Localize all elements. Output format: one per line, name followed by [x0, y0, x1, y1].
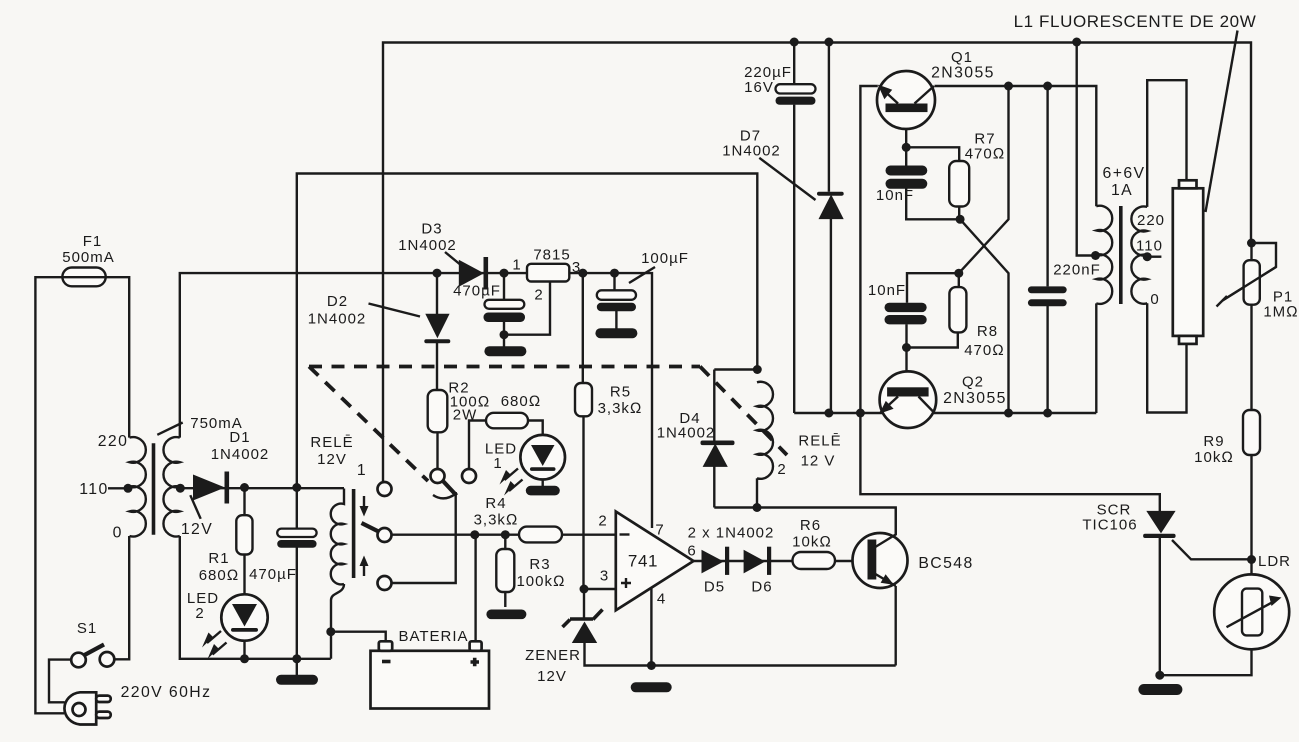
wire: R3 branch to ground: [504, 535, 506, 607]
wire: T2 primary bottom to Q2 collector rail: [1095, 303, 1097, 413]
node relay2 coil top: [753, 365, 762, 374]
svg-text:0: 0: [1150, 291, 1159, 308]
transistor BC548: [853, 508, 974, 589]
svg-text:100µF: 100µF: [641, 250, 689, 267]
wire: R4 output to op-amp pin 2: [562, 534, 616, 536]
relay RELE1 lower fixed contact: [378, 576, 392, 590]
wire: D7 column: [829, 42, 831, 413]
wire: zener to ground line and op-amp pin 4: [585, 585, 896, 666]
wire: T2 secondary 110 tap stub: [1147, 256, 1161, 258]
svg-text:R3: R3: [529, 556, 550, 573]
wire: P1 wiper end tick: [1217, 296, 1228, 307]
wire: Q1 collector line to transformer T2 primary top: [935, 86, 1097, 206]
wire: fuse to T1 primary 220 tap: [106, 277, 130, 437]
node T2 centre tap rail1: [1072, 38, 1081, 47]
svg-text:D3: D3: [421, 221, 442, 238]
wire: SCR cathode to ground node: [1159, 538, 1161, 676]
svg-text:RELĒ: RELĒ: [798, 433, 841, 450]
svg-text:110: 110: [1136, 238, 1163, 255]
svg-text:TIC106: TIC106: [1082, 517, 1137, 534]
wire: R5 column from rail3 to reference node: [582, 273, 585, 589]
resistor R5 3,3k: [575, 383, 642, 417]
label T1 rating 750mA with pointer: [157, 423, 182, 435]
diode D7 1N4002: [722, 128, 843, 220]
ground symbol under SCR: [1138, 684, 1182, 695]
node Q2 base network: [954, 269, 963, 278]
node 220uF top rail: [790, 38, 799, 47]
diode D1 1N4002: [193, 429, 269, 504]
wire: Q1 emitter leg down to Q2 emitter rail: [860, 86, 877, 413]
wire: AC rail3 from T1 secondary top to D3 / 7815 / op-amp pin7 corner: [180, 273, 652, 528]
wire: SCR anode feed line from oscillator rail: [860, 413, 1159, 512]
transformer T1 core: [152, 443, 156, 535]
wire: battery plus lead up to comparator input node: [474, 535, 476, 642]
wire: R9 to LDR: [1250, 455, 1252, 575]
ground symbol under 470uF-2: [484, 346, 526, 356]
svg-text:2W: 2W: [453, 407, 478, 424]
resistor R7 470ohm: [949, 131, 1005, 207]
svg-text:BATERIA: BATERIA: [398, 628, 468, 645]
resistor R9 10k: [1194, 410, 1260, 466]
svg-text:12V: 12V: [317, 451, 347, 468]
wire: SCR gate to divider node: [1172, 540, 1252, 559]
svg-text:4: 4: [657, 591, 666, 608]
wire: 680ohm to LED1: [528, 421, 543, 436]
node R5 top: [578, 269, 587, 278]
svg-text:110: 110: [79, 481, 108, 498]
node battery minus tie: [326, 627, 335, 636]
svg-text:F1: F1: [83, 233, 103, 250]
svg-text:3,3kΩ: 3,3kΩ: [474, 512, 519, 529]
wire: T2 secondary 220 end up and over to lamp top pin: [1147, 80, 1186, 207]
svg-text:470µF: 470µF: [249, 566, 297, 583]
LDR: [1214, 574, 1289, 649]
diode D5: [702, 547, 730, 596]
svg-text:R1: R1: [208, 550, 229, 567]
wire: D4 flyback diode column: [713, 370, 715, 508]
wire: S1 to plug: [49, 660, 71, 703]
diode D4 1N4002: [657, 410, 735, 467]
resistor R8 470ohm: [949, 287, 1004, 359]
wire: contact to 680ohm resistor: [469, 421, 486, 470]
wire: LED1 cathode to ground: [542, 479, 544, 487]
svg-text:220: 220: [1137, 212, 1165, 229]
node R3 top: [501, 530, 510, 539]
node 470uF-1 ground rail: [292, 654, 301, 663]
wire: T1 110 tap stub: [108, 487, 128, 489]
svg-text:1N4002: 1N4002: [398, 237, 457, 254]
wire: T1 secondary bottom to ground rail along bottom: [180, 536, 331, 659]
node T1 110 tap: [124, 484, 133, 493]
diode D2 1N4002: [308, 293, 451, 343]
node SCR gate / divider: [1247, 555, 1256, 564]
svg-text:R6: R6: [800, 517, 821, 534]
node SCR cathode / LDR ground: [1155, 671, 1164, 680]
wire: reference node to op-amp pin 3: [584, 588, 616, 590]
node 470uF-1 top: [292, 483, 301, 492]
svg-text:1: 1: [357, 462, 367, 479]
svg-text:220V 60Hz: 220V 60Hz: [121, 684, 212, 701]
svg-text:R8: R8: [977, 323, 998, 340]
svg-text:6: 6: [687, 543, 696, 560]
op-amp 741: [616, 512, 694, 611]
transformer T2 primary winding: [1096, 206, 1112, 304]
node Q1 collector column top: [1004, 82, 1013, 91]
svg-text:7815: 7815: [533, 247, 570, 264]
svg-text:6+6V: 6+6V: [1103, 165, 1146, 182]
svg-text:D5: D5: [704, 579, 725, 596]
svg-text:16V: 16V: [744, 79, 774, 96]
wire: P1 to R9: [1250, 243, 1252, 410]
node Q1 base / R7: [902, 143, 911, 152]
svg-text:0: 0: [113, 525, 123, 542]
node zener / pin3 reference: [580, 585, 589, 594]
node relay2 coil bottom: [753, 503, 762, 512]
svg-text:D2: D2: [327, 293, 348, 310]
resistor R1 680ohm: [199, 515, 253, 584]
battery: [371, 628, 490, 709]
transformer T1 primary winding: [130, 437, 146, 536]
node 470uF-2 top: [500, 269, 509, 278]
capacitor 470uF-1: [249, 529, 317, 583]
switch S1: [71, 620, 114, 667]
wire: 470uF-1 column and ground stem: [296, 488, 298, 676]
relay RELE2 coil: [757, 382, 842, 479]
wire: relay1 coil bottom lead down to ground rail: [331, 584, 344, 659]
wire: cross-coupling diagonal from Q1 collector column to Q2 base network: [959, 86, 1009, 273]
svg-text:12V: 12V: [181, 521, 213, 538]
svg-text:ZENER: ZENER: [525, 647, 581, 664]
ground symbol under R3: [486, 610, 526, 620]
wire: BC548 emitter down to ground line: [895, 586, 897, 666]
svg-text:2: 2: [534, 287, 543, 304]
potentiometer P1 1M: [1223, 260, 1299, 320]
svg-text:500mA: 500mA: [62, 249, 115, 266]
svg-text:BC548: BC548: [918, 555, 973, 572]
svg-text:Q1: Q1: [951, 49, 973, 66]
wire: Q2 emitter rail across oscillator: [794, 412, 1096, 414]
SCR TIC106: [1082, 502, 1175, 539]
node R4 input / battery plus: [470, 530, 479, 539]
svg-text:R5: R5: [610, 384, 631, 401]
svg-text:1: 1: [493, 455, 502, 472]
fluorescent lamp L1: [1173, 180, 1203, 344]
capacitor 10nF lower: [868, 282, 927, 324]
node LED2 ground rail: [240, 654, 249, 663]
svg-text:10nF: 10nF: [868, 282, 906, 299]
wire: 470uF-2 column: [503, 273, 505, 347]
node T1 12V tap: [176, 484, 185, 493]
svg-text:10nF: 10nF: [876, 187, 914, 204]
resistor R3 100k: [496, 549, 565, 592]
wire: D4 top tie to relay2 coil node: [714, 368, 757, 370]
transformer T2 core: [1119, 206, 1123, 304]
svg-text:10kΩ: 10kΩ: [792, 534, 832, 551]
relay RELE1 second pole fixed contact: [462, 469, 476, 483]
ground symbol below bottom rail: [276, 675, 318, 685]
svg-text:12V: 12V: [537, 668, 567, 685]
regulator 7815: [527, 247, 571, 282]
wire: P1 wiper tie: [1223, 243, 1277, 301]
relay RELE1 second pole pivot contact: [431, 469, 457, 498]
wire: zener top lead: [583, 589, 585, 618]
svg-text:3,3kΩ: 3,3kΩ: [598, 400, 643, 417]
ground symbol under LED1: [526, 486, 560, 496]
resistor R6 10k: [792, 517, 835, 569]
relay RELE1 contact 1 (upper fixed): [378, 482, 392, 496]
node R7 bottom cross-couple: [956, 215, 965, 224]
svg-text:220nF: 220nF: [1053, 262, 1101, 279]
wire: 220nF column: [1046, 86, 1048, 413]
wire: relay2 coil bottom to driver collector line: [756, 478, 758, 507]
LED 1: [485, 435, 565, 496]
resistor 680ohm for LED1: [486, 393, 541, 428]
LED 2: [187, 590, 268, 659]
svg-text:3: 3: [600, 568, 609, 585]
wire: mechanical link dashed horizontal: [309, 365, 700, 369]
svg-text:10kΩ: 10kΩ: [1194, 449, 1234, 466]
wire: Q1 base to R7 and 10nF: [906, 112, 960, 219]
capacitor 220nF: [1028, 262, 1101, 307]
wire: 100uF column and ground stem: [615, 273, 617, 329]
node D7 top rail: [824, 38, 833, 47]
wire: T2 primary centre tap to top rail: [1077, 42, 1096, 256]
node Q2 base tie: [902, 343, 911, 352]
wire: top supply rail from relay contact column across to right column: [383, 43, 1251, 483]
wire: 220uF column from top rail to Q2 emitter rail: [793, 42, 795, 413]
node 220nF top: [1043, 82, 1052, 91]
transformer T2 secondary winding: [1131, 206, 1147, 303]
svg-text:2 x 1N4002: 2 x 1N4002: [688, 525, 775, 542]
svg-text:100kΩ: 100kΩ: [516, 573, 565, 590]
wire: T2 secondary 0 end to lamp bottom pin: [1147, 303, 1186, 412]
ground symbol under op-amp: [631, 682, 672, 692]
svg-text:Q2: Q2: [962, 374, 984, 391]
relay RELE1 travel arrow down: [363, 496, 365, 508]
node 100uF top: [610, 269, 619, 278]
svg-text:D1: D1: [229, 429, 250, 446]
node P1 top tie: [1247, 239, 1256, 248]
svg-text:1N4002: 1N4002: [211, 446, 270, 463]
transistor Q2 2N3055: [879, 371, 1007, 428]
wire: cross-coupling diagonal from R7 bottom to Q2 collector column: [960, 219, 1008, 413]
wire: mechanical link dashed diagonal to relay2: [700, 367, 787, 456]
svg-text:R4: R4: [485, 495, 506, 512]
wire: op-amp output pin 6 through D5 D6 R6 to BC548 base: [694, 560, 868, 562]
wire: D2 R2 column: [436, 273, 439, 469]
ground symbol under 100uF: [595, 328, 637, 338]
svg-text:1N4002: 1N4002: [722, 143, 781, 160]
node rail3 D3 anode branch: [433, 269, 442, 278]
svg-text:470Ω: 470Ω: [964, 342, 1005, 359]
svg-text:1MΩ: 1MΩ: [1263, 304, 1298, 321]
svg-text:R9: R9: [1203, 433, 1224, 450]
capacitor 100uF: [597, 250, 689, 311]
svg-text:RELĒ: RELĒ: [310, 434, 353, 451]
svg-text:680Ω: 680Ω: [501, 393, 542, 410]
capacitor 470uF-2: [453, 283, 525, 323]
svg-text:1N4002: 1N4002: [657, 425, 716, 442]
svg-text:12 V: 12 V: [801, 453, 836, 470]
lamp pointer line: [1206, 31, 1238, 213]
node 470uF-2 ground / 7815 pin2: [500, 330, 509, 339]
svg-text:7: 7: [655, 522, 664, 539]
svg-text:L1 FLUORESCENTE DE 20W: L1 FLUORESCENTE DE 20W: [1014, 12, 1257, 31]
wire: 7815 pin2 to 470uF-2 ground node: [504, 282, 550, 335]
resistor R2 100ohm 2W: [428, 380, 491, 433]
node Q2 collector column at rail: [1004, 409, 1013, 418]
svg-text:220: 220: [98, 433, 129, 450]
svg-text:2N3055: 2N3055: [943, 390, 1007, 407]
node D7 at oscillator rail: [824, 409, 833, 418]
svg-text:2N3055: 2N3055: [931, 65, 995, 82]
svg-text:741: 741: [628, 552, 658, 571]
svg-text:2: 2: [195, 605, 204, 622]
diode D3 1N4002: [398, 221, 488, 290]
capacitor 10nF upper: [876, 166, 927, 205]
svg-text:2: 2: [598, 513, 607, 530]
svg-text:LDR: LDR: [1258, 553, 1291, 570]
wire: relay1 lower contact to changeover arm: [392, 492, 456, 583]
relay RELE1 coil: [310, 434, 353, 584]
mains plug: [64, 692, 110, 724]
svg-text:D6: D6: [751, 579, 772, 596]
node D1 cathode / R1: [240, 483, 249, 492]
wire: R1 / LED2 branch: [243, 488, 245, 659]
svg-text:S1: S1: [77, 620, 97, 637]
relay RELE1 moving contact: [362, 523, 392, 542]
svg-text:470Ω: 470Ω: [965, 146, 1006, 163]
node T2 primary centre tap: [1091, 251, 1100, 260]
relay RELE1 core bar: [352, 489, 356, 578]
capacitor 220uF 16V: [744, 64, 815, 105]
wire: D1 rail from 12V tap to relay 1 coil top: [180, 487, 344, 489]
wire: mechanical link dashed diagonal to relay1 arm: [309, 367, 428, 482]
transformer T1 secondary winding: [163, 437, 179, 536]
node Q1 emitter leg at oscillator rail: [856, 409, 865, 418]
wire: relay1 moving contact to R4 node: [392, 534, 520, 536]
svg-text:1A: 1A: [1111, 182, 1133, 199]
wire: +12V rail2 feeding relay 2 coil: [297, 174, 758, 488]
fuse F1: [62, 233, 115, 286]
resistor R4 3,3k: [474, 495, 562, 542]
svg-text:1N4002: 1N4002: [308, 311, 367, 328]
node op-amp pin4 ground: [647, 661, 656, 670]
wire: LDR bottom to SCR cathode ground node: [1160, 649, 1252, 675]
node T2 110 tap: [1143, 252, 1152, 261]
wire: mains left leg from fuse down to plug: [35, 277, 64, 713]
diode D6: [744, 547, 773, 596]
svg-text:2: 2: [777, 461, 786, 478]
svg-text:470µF: 470µF: [453, 283, 501, 300]
wire: T1 primary 0 tap down to switch S1: [115, 536, 129, 659]
svg-text:1: 1: [512, 257, 521, 274]
svg-text:680Ω: 680Ω: [199, 567, 240, 584]
transistor Q1 2N3055: [877, 49, 995, 129]
wire: battery minus lead: [331, 632, 386, 642]
relay RELE1 travel arrow up: [363, 564, 365, 576]
wire: Q2 base network ties 10nF-2 and R8: [907, 273, 959, 387]
wire: driver collector line from D4 to BC548: [714, 508, 895, 536]
label T1 secondary 12V with pointer: [190, 495, 200, 519]
node 220nF bottom at rail: [1043, 409, 1052, 418]
zener diode 12V: [525, 610, 602, 686]
